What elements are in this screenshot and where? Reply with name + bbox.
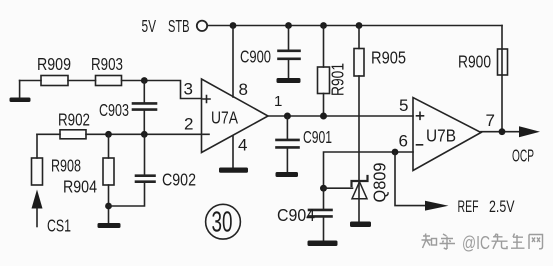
- pin 2 label: [184, 115, 193, 134]
- ground under C904: [308, 241, 338, 247]
- pin 5 label: [399, 96, 408, 115]
- svg-text:C900: C900: [240, 47, 271, 67]
- svg-text:6: 6: [399, 132, 408, 151]
- svg-text:8: 8: [239, 80, 248, 99]
- resistor R903: [96, 76, 122, 86]
- ground under C901: [276, 172, 299, 177]
- svg-text:R909: R909: [37, 54, 71, 74]
- wire pin 7 output: [481, 131, 519, 133]
- wire R903 to pin 3: [122, 81, 202, 99]
- ground under zener: [350, 222, 371, 228]
- pin 6 label: [399, 132, 408, 151]
- pin 7 label: [486, 111, 495, 130]
- wire R909 to R903: [68, 80, 96, 82]
- junction dot pin1/C901: [284, 113, 291, 120]
- resistor R905: [354, 26, 364, 182]
- svg-text:1: 1: [274, 93, 282, 110]
- svg-text:4: 4: [238, 136, 247, 155]
- op-amp U7B: [413, 98, 481, 171]
- svg-text:2.5V: 2.5V: [489, 197, 515, 216]
- label C904: [277, 205, 315, 225]
- pin 3 label: [184, 80, 193, 99]
- resistor R909: [41, 76, 68, 86]
- wire REF branch: [395, 152, 426, 206]
- label C903: [99, 100, 129, 120]
- wire pin 4: [232, 136, 234, 168]
- svg-text:U7B: U7B: [426, 126, 456, 146]
- svg-text:R903: R903: [91, 54, 123, 74]
- label R900: [458, 52, 491, 72]
- junction dot pin 7: [499, 128, 506, 135]
- label REF 2.5V: [458, 197, 515, 216]
- wire R902 to R908: [36, 134, 38, 158]
- svg-text:R908: R908: [51, 156, 81, 176]
- label OCP: [512, 146, 534, 166]
- junction dot R904/C902 bottom: [105, 203, 112, 210]
- label R909: [37, 54, 71, 74]
- svg-text:C902: C902: [162, 170, 196, 190]
- junction dot pin3/C903: [141, 77, 148, 84]
- resistor R900: [498, 49, 508, 75]
- svg-text:30: 30: [212, 207, 233, 239]
- label U7A: [211, 108, 238, 128]
- junction dot 5V/pin8: [230, 22, 237, 29]
- junction dot pin2/R904: [105, 131, 112, 138]
- svg-text:REF: REF: [458, 197, 479, 216]
- svg-text:OCP: OCP: [512, 146, 534, 166]
- resistor R901: [318, 26, 330, 117]
- svg-text:5: 5: [399, 96, 408, 115]
- junction dot 5V/C900: [285, 22, 292, 29]
- svg-text:STB: STB: [168, 16, 190, 36]
- svg-text:3: 3: [184, 80, 193, 99]
- resistor R908: [32, 158, 43, 185]
- svg-text:C903: C903: [99, 100, 129, 120]
- ground top-left: [10, 81, 31, 103]
- svg-text:@IC: @IC: [462, 233, 490, 253]
- svg-text:R901: R901: [328, 63, 348, 96]
- op-amp U7A: [202, 79, 269, 153]
- label U7B: [426, 126, 456, 146]
- svg-text:CS1: CS1: [47, 216, 71, 236]
- watermark 知乎 @IC先生网: [422, 233, 543, 253]
- label C902: [162, 170, 196, 190]
- junction dot 5V/R901: [320, 22, 327, 29]
- capacitor C903: [133, 81, 156, 135]
- ground under pin 4: [219, 168, 248, 173]
- resistor R902: [37, 130, 86, 139]
- label R901 (rotated): [328, 63, 348, 96]
- svg-text:5V: 5V: [142, 16, 157, 36]
- label R904: [63, 177, 97, 197]
- junction dot 5V/R905: [356, 22, 363, 29]
- capacitor C900: [279, 26, 300, 79]
- wire pin 1 to pin 5: [268, 115, 413, 117]
- wire pin 8: [232, 26, 234, 98]
- label Q809 (rotated): [370, 163, 390, 203]
- net label 5V STB: [142, 16, 190, 36]
- ground under C900: [277, 78, 301, 83]
- zener diode Q809: [352, 176, 368, 222]
- svg-text:R904: R904: [63, 177, 97, 197]
- wire pin 6 net: [324, 152, 414, 188]
- input arrow CS1: [32, 190, 43, 227]
- junction dot pin6/REF: [392, 149, 399, 156]
- junction dot pin1/R901: [320, 113, 327, 120]
- sheet number circle 30: [206, 204, 241, 239]
- label C901: [303, 127, 332, 147]
- label C900: [240, 47, 271, 67]
- svg-text:7: 7: [486, 111, 495, 130]
- pin 8 label: [239, 80, 248, 99]
- capacitor C901: [277, 116, 299, 172]
- svg-text:Q809: Q809: [370, 163, 390, 203]
- svg-text:R900: R900: [458, 52, 491, 72]
- label CS1: [47, 216, 71, 236]
- resistor R904: [103, 134, 114, 223]
- capacitor C904: [309, 188, 332, 240]
- svg-text:R905: R905: [371, 48, 406, 68]
- ground under R904: [98, 223, 121, 228]
- wire pin 2 net: [86, 133, 202, 135]
- wire ground to R909: [20, 80, 41, 82]
- capacitor C902: [109, 134, 155, 206]
- pin 1 label: [274, 93, 282, 110]
- wire node to zener anode: [324, 187, 353, 189]
- svg-text:U7A: U7A: [211, 108, 238, 128]
- label R905: [371, 48, 406, 68]
- label R902: [58, 110, 90, 130]
- svg-text:2: 2: [184, 115, 193, 134]
- wire right vertical to pin 7 node: [501, 26, 503, 132]
- output arrow REF: [425, 201, 449, 211]
- junction dot pin2/C903/C902: [141, 131, 148, 138]
- svg-text:R902: R902: [58, 110, 90, 130]
- pin 4 label: [238, 136, 247, 155]
- terminal circle 5V STB: [197, 21, 207, 31]
- output arrow OCP: [519, 126, 540, 137]
- svg-text:C904: C904: [277, 205, 315, 225]
- label R903: [91, 54, 123, 74]
- svg-text:C901: C901: [303, 127, 332, 147]
- junction dot C904/zener node: [320, 185, 327, 192]
- label R908: [51, 156, 81, 176]
- wire 5V rail: [208, 25, 503, 27]
